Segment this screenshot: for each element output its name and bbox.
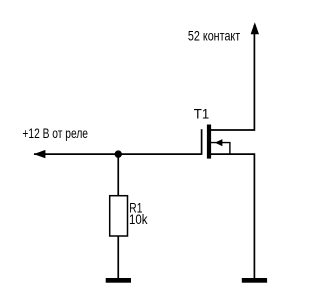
resistor R1 xyxy=(110,196,128,236)
wire +12V to gate xyxy=(34,153,201,155)
transistor T1 channel bar xyxy=(207,125,211,159)
wire source to right xyxy=(211,154,255,278)
svg-text:T1: T1 xyxy=(194,105,210,121)
wire R1 to ground xyxy=(117,236,119,279)
ground left xyxy=(106,278,131,283)
arrow to +12 В от реле xyxy=(34,150,46,158)
arrow to 52 контакт xyxy=(251,22,259,34)
wire drain to 52 контакт xyxy=(211,25,255,130)
transistor T1 body arrow xyxy=(215,139,223,146)
transistor T1 body wire xyxy=(211,143,230,155)
wire junction to R1 xyxy=(117,154,119,196)
transistor T1 gate line xyxy=(201,129,203,155)
ground right xyxy=(242,278,267,283)
junction node xyxy=(115,150,122,157)
svg-text:+12 В от реле: +12 В от реле xyxy=(22,125,88,141)
svg-text:52 контакт: 52 контакт xyxy=(188,28,241,44)
svg-text:10k: 10k xyxy=(129,211,148,227)
